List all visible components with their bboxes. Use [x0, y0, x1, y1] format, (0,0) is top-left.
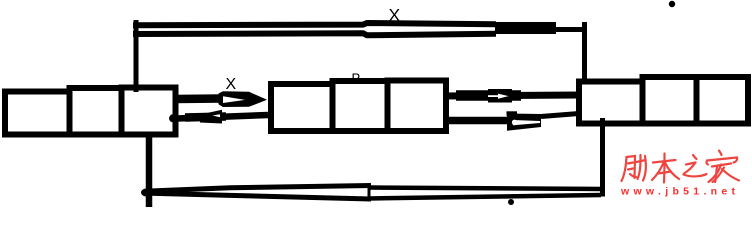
svg-text:X: X: [226, 76, 237, 93]
svg-text:X: X: [389, 5, 401, 25]
svg-text:www.jb51.net: www.jb51.net: [620, 186, 739, 198]
svg-text:P: P: [352, 71, 361, 86]
